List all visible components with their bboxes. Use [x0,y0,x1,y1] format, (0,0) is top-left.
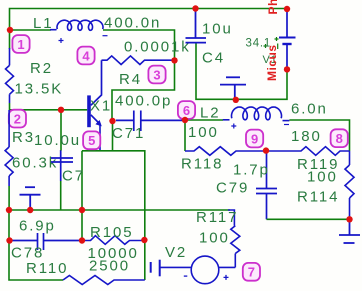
svg-text:6.0n: 6.0n [291,101,328,118]
wire C7 bottom [60,181,62,210]
resistor R119 [269,147,350,156]
svg-text:R114: R114 [297,189,339,206]
svg-text:Ph: Ph [266,0,280,15]
capacitor C79 [256,151,277,220]
svg-text:V2: V2 [165,244,187,261]
svg-text:100: 100 [188,124,219,141]
ground left [20,187,41,209]
wire R3 to bottom rail [8,186,10,210]
svg-text:R110: R110 [26,260,68,277]
capacitor C78 [10,233,83,250]
node 4 [77,47,94,65]
svg-text:Micus: Micus [265,44,279,81]
svg-text:C71: C71 [112,125,145,142]
dot emitter [109,118,115,124]
dot V1 top [284,6,290,12]
dot C4 top [192,5,198,11]
dot node6 [182,117,188,123]
wire emitter down [112,121,114,151]
wire C4 bottom to ground rail [196,44,287,100]
transistor X1 collector lead [91,60,102,105]
svg-text:180: 180 [291,128,322,145]
svg-text:R4: R4 [119,71,142,88]
svg-text:60.3k: 60.3k [12,155,58,172]
resistor R117 [228,210,240,267]
dot base/C7 [58,107,64,113]
node dot 1 [7,27,13,33]
svg-text:R105: R105 [90,224,133,241]
dot bottom right [346,216,352,222]
svg-text:10000: 10000 [88,245,139,262]
svg-text:9: 9 [251,131,258,146]
svg-text:5: 5 [88,133,95,148]
capacitor C4 [186,9,207,43]
wire mid rail [9,209,230,211]
wire top rail [10,9,288,31]
wire C79 bottom to ground [267,218,350,220]
dot C78 right [79,237,85,243]
dot rail left [6,207,12,213]
svg-text:6.9p: 6.9p [19,218,56,235]
resistor R3 [5,110,13,186]
node 1 [12,35,29,53]
resistor R2 [9,30,11,49]
svg-text:C7: C7 [62,168,85,185]
svg-text:0.0001k: 0.0001k [124,39,191,56]
node 5 [83,131,100,149]
node 8 [331,129,348,147]
svg-text:400.0n: 400.0n [104,15,161,32]
svg-text:3: 3 [153,67,160,82]
battery polarity marks [264,37,279,49]
svg-text:4: 4 [82,48,90,63]
resistor R105 [82,236,144,245]
wire C7 top [60,110,62,151]
svg-text:100: 100 [307,169,338,186]
svg-text:L1: L1 [33,15,54,32]
wire emitter node5 horizontal [82,151,145,280]
ground right [339,219,360,243]
svg-text:10u: 10u [202,21,233,38]
dot R4 right [171,57,177,63]
wire node5 left leg down [81,151,83,241]
inductor L1 [50,20,108,43]
svg-text:8: 8 [336,131,343,146]
ground mid (under C4) [220,77,246,100]
svg-text:7: 7 [248,265,255,280]
svg-text:C79: C79 [216,180,249,197]
resistor R118 [185,147,263,156]
capacitor C7 [51,150,73,181]
resistor R4 [102,56,172,65]
svg-text:C4: C4 [202,50,225,67]
wire node6 vertical [184,120,186,151]
source V2 [151,256,236,284]
wire node1 to L1 [10,29,51,31]
svg-text:R118: R118 [181,156,223,173]
node 3 [148,66,165,84]
dot mid ground [233,97,239,103]
svg-text:L2: L2 [200,105,221,122]
wire L1 right to R4 [103,30,175,60]
dot rail ground [27,207,33,213]
resistor R110 [63,276,145,285]
svg-text:R117: R117 [196,209,238,226]
svg-text:100: 100 [199,230,230,247]
dot V1 bottom [284,66,290,72]
node 7 [243,263,260,281]
svg-text:1.7p: 1.7p [233,162,270,179]
resistor R114 [345,151,354,219]
svg-text:10.0u: 10.0u [34,132,81,149]
svg-text:400.0p: 400.0p [115,93,172,110]
svg-text:X1: X1 [90,98,112,115]
wire node6 to L2 [185,119,223,121]
battery V1 [279,9,296,69]
capacitor C71 [116,111,183,132]
inductor L2 [223,107,290,129]
transistor X1 base bar [87,95,91,127]
transistor X1 emitter with arrow [91,115,102,151]
svg-text:6: 6 [183,103,190,118]
svg-text:R2: R2 [30,60,53,77]
node 2 [9,110,26,128]
svg-text:C78: C78 [11,245,44,262]
dot R105 right [141,237,147,243]
svg-text:R3: R3 [12,129,35,146]
svg-text:2: 2 [14,111,21,126]
wire R4 right down to emitter net [112,60,175,121]
node 6 [178,101,195,119]
wire base rail node2 [10,103,88,110]
wire left rail lower [9,210,63,280]
dot C78 left [6,237,12,243]
node 9 [246,130,263,148]
svg-text:13.5K: 13.5K [15,81,64,98]
dot R118 right [263,147,269,153]
wire L2 right [289,120,349,151]
dot rail x82 [79,207,85,213]
svg-text:1: 1 [17,37,24,52]
